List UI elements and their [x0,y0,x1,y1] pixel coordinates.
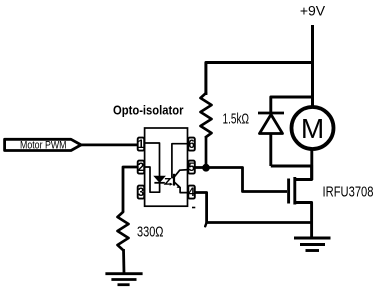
phototransistor emitter arrowhead [177,185,181,189]
svg-text:IRFU3708: IRFU3708 [323,184,374,200]
svg-text:6: 6 [188,139,194,151]
wire MOSFET drain lead [295,165,312,180]
phototransistor base bar [173,174,175,186]
LED inside opto triangle [154,176,164,182]
wire opto internal pin6 to transistor base [172,144,188,178]
wire resistor R2 to ground [122,249,125,274]
wire diode to motor bottom junction [271,165,312,168]
LED cathode bar [154,182,164,184]
opto pin 2 box [138,161,145,174]
resistor R1 1.5k zigzag [201,93,212,137]
opto pin 5 box [188,161,195,174]
svg-text:Opto-isolator: Opto-isolator [113,102,184,117]
svg-text:1.5kΩ: 1.5kΩ [223,112,250,128]
opto pin 6 box [188,138,195,151]
resistor R2 330 zigzag [118,212,129,250]
svg-text:4: 4 [188,187,195,199]
opto U1 package outline [145,128,188,206]
diode D1 cathode bar [258,112,284,115]
wire top rail to resistor branch [206,63,313,96]
wire opto pin5 to MOSFET gate [195,168,287,192]
svg-text:M: M [301,113,324,144]
opto pin 4 box [188,186,195,199]
transistor Q1 MOSFET gate bar [287,179,290,204]
wire +9V vertical lead [311,25,314,106]
wire diode anode lead [269,134,272,167]
wire opto internal pin1 to LED anode [144,143,159,176]
stray dash mark [192,207,195,209]
node junction dot at opto pin 5 [202,164,210,172]
diode D1 triangle [260,115,283,134]
opto pin 1 box [138,138,145,151]
wire motor bottom lead to drain [310,149,313,180]
input flag Motor PWM [5,139,81,150]
ground right symbol [294,238,331,251]
phototransistor collector to pin5 [174,170,188,177]
transistor Q1 MOSFET channel bar [293,177,296,205]
wire opto internal pin2 to LED cathode [144,167,159,192]
svg-text:3: 3 [138,187,144,199]
svg-text:Motor PWM: Motor PWM [20,139,67,151]
wire opto pin2 to resistor R2 [123,167,138,212]
motor M1 circle [292,107,334,149]
svg-text:5: 5 [188,162,195,174]
svg-text:1: 1 [138,139,145,151]
wire opto pin4 to source/ground bus [195,193,312,223]
wire corner tail [205,223,206,227]
wire flag to opto pin1 [81,143,138,146]
svg-text:+9V: +9V [300,2,326,18]
wire MOSFET source lead [295,203,312,239]
light arrows from LED [165,179,170,184]
svg-text:2: 2 [138,162,144,174]
ground left symbol [105,274,142,285]
svg-text:330Ω: 330Ω [137,225,164,241]
wire resistor R1 bottom to junction [205,136,208,168]
phototransistor emitter to pin4 [174,182,188,193]
opto pin 3 box [138,186,145,199]
wire diode top connection [271,97,312,112]
